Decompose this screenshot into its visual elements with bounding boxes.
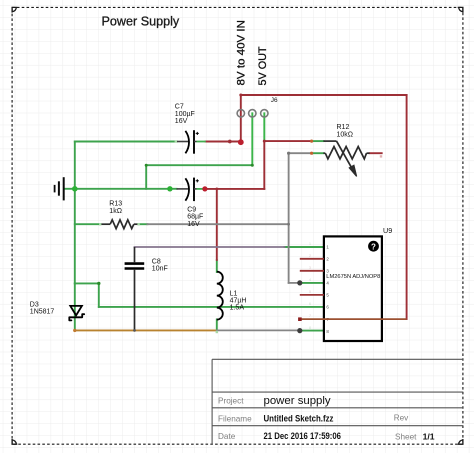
wire bottom rail gray to pin8 [217,329,300,331]
svg-text:LM2675N ADJ/NOP8: LM2675N ADJ/NOP8 [326,274,380,280]
wire R12 right red [370,152,382,154]
wire jog vertical [98,283,100,307]
svg-text:47µH: 47µH [230,298,247,305]
capacitor C9 [177,178,204,228]
svg-text:C9: C9 [187,206,196,213]
wire U9 pin8 stub [300,330,324,332]
wire L1 top green [216,260,218,272]
node pin8 terminal [297,328,302,333]
inductor L1 [217,272,247,320]
op-amp U9 body [324,236,382,341]
svg-text:Filename: Filename [218,415,252,424]
node out corner [263,140,266,143]
wire R12 bottom green bit [312,152,324,154]
wire ground rail to C9 [75,188,177,190]
U9 pin ghost numbers [309,241,312,330]
node gnd riser corner [145,164,148,167]
wire jog horizontal [75,282,99,284]
svg-text:?: ? [371,242,376,251]
node jog corner [97,282,100,285]
U9 pin3 stub [300,270,324,272]
wire U9 pin4 stub [300,282,324,284]
wire gnd riser to J6 pin2 [146,165,252,189]
node FB tee [287,223,290,226]
node wiper wire end [310,140,313,143]
wire out node drop red [263,141,265,189]
node C9 plus [202,186,207,191]
wire C8 to pin1 purple [135,246,285,248]
svg-text:10nF: 10nF [152,266,168,273]
wire top rail red [241,94,407,96]
svg-text:L1: L1 [230,291,238,298]
svg-text:J6: J6 [271,97,278,104]
svg-text:1.5A: 1.5A [230,305,245,312]
svg-text:16V: 16V [187,221,200,228]
wire bottom rail orange [75,329,217,331]
svg-text:Sheet: Sheet [395,433,417,442]
wire L1 bottom green [216,319,218,330]
node J6 pin1 junction [238,139,244,145]
wire pin6 net horizontal [99,306,324,308]
capacitor C8 [125,247,168,330]
svg-text:5V OUT: 5V OUT [257,46,269,85]
svg-text:10kΩ: 10kΩ [337,132,354,139]
svg-text:Power Supply: Power Supply [102,15,180,29]
svg-text:1N5817: 1N5817 [30,309,55,316]
svg-text:Untitled Sketch.fzz: Untitled Sketch.fzz [264,414,334,424]
U9 help badge [368,241,379,252]
resistor R13 [100,201,138,229]
svg-text:R13: R13 [109,201,122,208]
wire U9 pin7 VIN red over chip [300,318,407,320]
wire right rail red down [406,95,408,319]
svg-text:16V: 16V [175,118,188,125]
wire FB column gray [288,153,290,283]
wire R12 wiper green bit [312,140,324,142]
wire J6 pin3 drop [263,113,265,141]
wire ground down left column [74,189,76,284]
ground symbol [55,177,64,200]
trimmer R12 [323,124,369,176]
diode D3 1N5817 [30,301,84,320]
svg-text:D3: D3 [30,301,39,308]
wire FB to pin4 gray [289,282,300,284]
svg-text:power supply: power supply [264,395,331,407]
wire R13 right green [138,223,147,225]
node R12 left corner [287,152,290,155]
node R12 bottom wire end [310,152,313,155]
wire ground stub [65,188,75,190]
svg-text:1/1: 1/1 [423,431,435,441]
wire C9+ out red [204,188,265,190]
connector J6 [237,97,278,117]
wire R12 bottom gray [289,152,312,154]
node C9 left junction [167,186,172,191]
wire J6 pin2 drop [251,113,253,165]
svg-text:U9: U9 [383,226,392,235]
svg-text:100µF: 100µF [175,111,195,118]
node L1 feed tee [215,188,218,191]
svg-text:Project: Project [218,397,244,406]
wire J6 pin1 vertical red [240,95,242,142]
svg-text:C7: C7 [175,104,184,111]
wire R13 to FB gray [147,223,288,225]
node pin4 terminal [297,280,302,285]
U9 pin5 stub [300,294,324,296]
wire D3 anode/cathode through [74,283,76,330]
U9 pin numbers [326,245,329,334]
svg-text:68µF: 68µF [187,214,203,221]
wire U9 pin1 green [285,246,325,248]
wire R13 left [75,223,100,225]
svg-text:1kΩ: 1kΩ [109,208,122,215]
svg-text:21 Dec 2016 17:59:06: 21 Dec 2016 17:59:06 [264,431,342,441]
wire C7+ to J6 red [206,141,241,143]
node ground junction [72,186,78,192]
svg-text:Rev: Rev [394,414,409,423]
U9 pin2 stub [300,258,324,260]
capacitor C7 [175,104,206,154]
svg-text:C8: C8 [152,258,161,265]
wire L1 feed red [216,189,218,260]
wire ground up to C7 row [74,142,76,189]
svg-text:R12: R12 [337,124,350,131]
svg-text:Date: Date [218,432,236,441]
node top rail corner [239,94,242,97]
svg-text:8V to 40V IN: 8V to 40V IN [235,20,247,86]
node pin2 corner [251,164,254,167]
wire C7 row horizontal [75,141,177,143]
node C7 wire end [228,140,232,144]
node pin7 terminal [298,317,302,321]
node D3 cathode junction [73,329,76,332]
wire R12 wiper red [264,140,311,142]
faint endpoint ticks [99,140,218,333]
node C8 bottom junction [133,329,136,332]
